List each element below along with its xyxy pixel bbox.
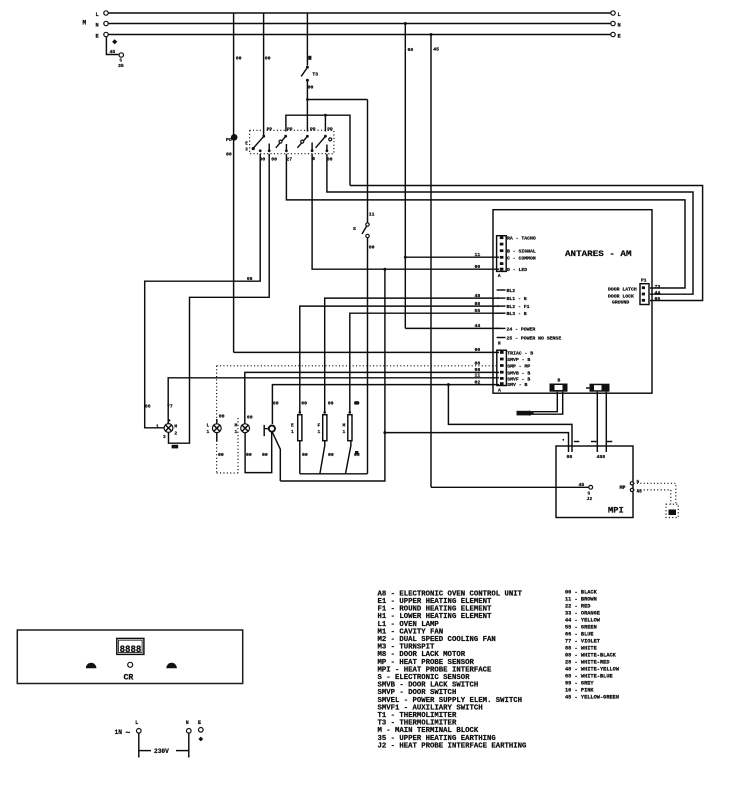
svg-text:PP: PP	[267, 127, 273, 133]
svg-text:68 - WHITE-BLUE: 68 - WHITE-BLUE	[565, 674, 613, 680]
wire M3 diagonal earth	[272, 432, 280, 482]
svg-text:BL1 - N: BL1 - N	[507, 296, 527, 302]
svg-text:DOOR LOCK: DOOR LOCK	[608, 294, 634, 300]
wire below T3 down to SMVEL sw3	[306, 82, 308, 132]
svg-text:E: E	[198, 720, 201, 726]
svg-text:25 - POWER NO SENSE: 25 - POWER NO SENSE	[507, 336, 562, 342]
svg-text:1: 1	[156, 423, 159, 429]
svg-text:1: 1	[291, 429, 294, 435]
svg-text:N: N	[186, 720, 189, 726]
wire C pin2 to plug	[532, 392, 563, 415]
wire L bus	[108, 12, 611, 14]
motor M2 cooling fan	[156, 419, 178, 448]
connector BL pin stubs and texts	[497, 288, 562, 347]
wire L drop	[138, 733, 140, 757]
wire door-lock rail to P1 pin3	[350, 186, 703, 301]
svg-text:BL3 - B: BL3 - B	[507, 311, 527, 317]
dotted lamp/sensor assembly bottom edge	[217, 472, 238, 474]
node N (right)	[611, 21, 615, 25]
svg-text:45 - YELLOW-GREEN: 45 - YELLOW-GREEN	[565, 695, 619, 701]
svg-text:28 - WHITE-RED: 28 - WHITE-RED	[565, 660, 610, 666]
svg-text:SMP - MP: SMP - MP	[507, 364, 530, 370]
svg-text:00: 00	[302, 452, 308, 458]
display window	[117, 638, 144, 655]
svg-text:PP: PP	[327, 127, 333, 133]
svg-text:D - LED: D - LED	[507, 267, 527, 273]
junction at 432.6	[383, 431, 386, 434]
wire H1 bottom with jog	[346, 441, 351, 474]
svg-text:88 - WHITE: 88 - WHITE	[565, 646, 597, 652]
heating element E1	[291, 401, 308, 458]
svg-text:00: 00	[226, 151, 232, 157]
svg-text:N: N	[498, 342, 501, 347]
connector D (board bottom right)	[586, 384, 610, 392]
svg-text:L: L	[135, 720, 138, 726]
svg-text:00: 00	[475, 347, 481, 353]
svg-text:SMVF - B: SMVF - B	[507, 376, 530, 382]
wire elements return rail	[300, 473, 368, 475]
svg-text:230V: 230V	[154, 748, 169, 755]
svg-text:66: 66	[247, 276, 253, 282]
svg-text:00: 00	[273, 401, 279, 407]
svg-text:00: 00	[271, 157, 277, 163]
svg-text:44: 44	[655, 290, 661, 296]
svg-text:C - COMMON: C - COMMON	[507, 255, 536, 261]
svg-text:73: 73	[655, 284, 661, 290]
wire T1 line (from door switch branch down to heating return)	[367, 100, 369, 223]
door lock contact SMVB on line	[231, 134, 238, 141]
svg-text:T3: T3	[312, 71, 318, 77]
wire F1 bottom with jog	[320, 441, 325, 474]
indicator lamp	[128, 662, 133, 667]
svg-text:E: E	[291, 423, 294, 429]
knob left	[86, 663, 97, 669]
junction LED row branch	[383, 268, 386, 271]
svg-text:45: 45	[433, 47, 439, 53]
svg-text:44: 44	[475, 323, 481, 329]
wire row to A8 connector (00)	[234, 351, 499, 353]
svg-text:488: 488	[597, 454, 606, 460]
svg-text:99 - GREY: 99 - GREY	[565, 681, 594, 687]
heating element F1	[318, 401, 334, 458]
wire vertical 00 from L (x=233.6)	[233, 13, 235, 352]
wire lamp stubs	[216, 419, 218, 424]
svg-text:08: 08	[567, 454, 573, 460]
svg-text:PP: PP	[287, 127, 293, 133]
wire row 44 to POWER pin	[405, 327, 499, 329]
svg-text:00: 00	[301, 401, 307, 407]
svg-text:66: 66	[408, 47, 414, 53]
wire N bus	[108, 23, 611, 25]
op board A8 ANTARES box	[493, 210, 652, 394]
svg-text:77: 77	[167, 404, 173, 410]
svg-text:00: 00	[327, 157, 333, 163]
plug symbol	[517, 410, 535, 416]
MP probe dotted body	[666, 504, 678, 517]
svg-text:BL2 - F1: BL2 - F1	[507, 304, 530, 310]
earth mark	[198, 737, 203, 742]
wire sw2 out to P1 pin1	[286, 154, 685, 288]
dotted MP sensor line to board	[217, 365, 496, 367]
svg-text:N: N	[618, 22, 621, 28]
svg-text:M: M	[83, 20, 87, 27]
svg-text:L: L	[618, 12, 621, 18]
MP dotted wire 1	[634, 483, 676, 504]
wire sw1 out a (66) to M2	[145, 154, 261, 428]
svg-text:00: 00	[218, 452, 224, 458]
svg-text:44 - YELLOW: 44 - YELLOW	[565, 618, 601, 624]
svg-text:1: 1	[343, 429, 346, 435]
svg-text:S: S	[588, 492, 591, 497]
svg-text:BL2: BL2	[507, 288, 516, 294]
svg-text:1: 1	[235, 429, 238, 435]
svg-text:45: 45	[579, 482, 585, 488]
svg-text:M: M	[235, 423, 238, 429]
svg-text:27: 27	[286, 157, 292, 163]
svg-text:00: 00	[265, 56, 271, 62]
wire row to S sensor (x=244.8)	[245, 372, 499, 423]
earth mark	[112, 39, 117, 44]
svg-text:SMV - B: SMV - B	[507, 382, 527, 388]
wire vertical 66 from N (x=405.3)	[404, 24, 406, 329]
svg-text:SMVP - B: SMVP - B	[507, 357, 530, 363]
wire sensor bottom stub	[245, 432, 272, 473]
wire D pin2 to MPI	[605, 392, 607, 452]
svg-text:11 - BROWN: 11 - BROWN	[565, 597, 597, 603]
wire T1 to elements return rail	[367, 238, 369, 474]
junction on N bus	[404, 22, 407, 25]
connector P1	[640, 278, 649, 305]
svg-text:48: 48	[475, 293, 481, 299]
power supply diagram	[115, 720, 204, 758]
svg-text:2: 2	[174, 430, 177, 436]
svg-text:M: M	[174, 423, 177, 429]
switch sw1	[252, 135, 271, 152]
wire row 88 to BL2 pin feeding element E1 (via x=299.8)	[300, 306, 499, 412]
svg-text:PO: PO	[226, 137, 232, 143]
wire row to M3 (x=272.4)	[272, 385, 499, 424]
wire vertical 45 from E (x=431)	[430, 35, 432, 488]
svg-text:8888: 8888	[120, 644, 142, 656]
svg-text:3: 3	[163, 435, 166, 440]
wire sw3 out to LED row	[312, 154, 499, 269]
svg-text:88: 88	[475, 301, 481, 307]
svg-text:22 - RED: 22 - RED	[565, 604, 590, 610]
wire down to M3 earth run	[280, 433, 385, 481]
svg-text:00: 00	[328, 401, 334, 407]
node earth terminal	[119, 53, 123, 57]
svg-text:00: 00	[247, 415, 253, 421]
junction MPI feed a	[447, 383, 450, 386]
earthing 35 small marks	[355, 401, 358, 404]
svg-text:00: 00	[328, 452, 334, 458]
svg-text:PP: PP	[310, 127, 316, 133]
svg-text:00: 00	[219, 414, 225, 420]
svg-text:77 - VIOLET: 77 - VIOLET	[565, 639, 601, 645]
wire branch down to MPI feed b	[384, 269, 386, 432]
svg-text:RA - TACHO: RA - TACHO	[507, 236, 536, 242]
SMVEL switch block dotted box	[250, 130, 334, 153]
svg-text:A: A	[498, 273, 501, 279]
svg-text:00: 00	[369, 244, 375, 250]
svg-text:J2: J2	[587, 496, 593, 502]
svg-text:88: 88	[475, 361, 481, 367]
wire vertical from L to door switch (x=307.4)	[306, 13, 308, 66]
wire sw4 top stub	[324, 115, 326, 131]
MPI earth terminal J2	[589, 485, 593, 489]
svg-text:B - SIGNAL: B - SIGNAL	[507, 249, 536, 255]
wire N drop	[188, 733, 190, 757]
svg-text:CR: CR	[124, 674, 134, 683]
svg-text:55: 55	[475, 308, 481, 314]
node L (right)	[611, 11, 615, 15]
svg-text:00: 00	[308, 85, 314, 91]
svg-text:TRIAC - B: TRIAC - B	[507, 350, 533, 356]
svg-text:A: A	[498, 387, 501, 393]
wire E earth drop top-left	[106, 37, 118, 55]
connector B (bottom)	[497, 350, 507, 393]
svg-text:MPI: MPI	[608, 507, 624, 516]
switch sw4	[316, 135, 332, 152]
svg-text:M: M	[343, 423, 346, 429]
svg-text:P1: P1	[641, 278, 647, 284]
svg-text:00: 00	[246, 452, 252, 458]
wire D pin1 to MPI	[596, 392, 598, 452]
svg-text:F: F	[318, 423, 321, 429]
wire MPI feed a	[448, 385, 572, 452]
motor M3 turnspit	[262, 425, 275, 458]
svg-text:1: 1	[207, 429, 210, 435]
svg-text:DOOR LATCH: DOOR LATCH	[608, 286, 637, 292]
svg-text:02: 02	[475, 379, 481, 385]
wire row 11 to COMMON pin	[405, 256, 499, 258]
junction for COMMON row	[404, 256, 407, 259]
svg-text:10 - PINK: 10 - PINK	[565, 688, 594, 694]
svg-text:33 - ORANGE: 33 - ORANGE	[565, 611, 600, 617]
svg-text:00 - BLACK: 00 - BLACK	[565, 590, 598, 596]
svg-text:5: 5	[637, 480, 640, 485]
heating element H1	[343, 401, 360, 458]
node E (right)	[611, 32, 615, 36]
dotted lamp/sensor assembly left edge	[216, 366, 218, 473]
legend colour codes	[565, 590, 620, 701]
connector C (board bottom left)	[550, 378, 568, 392]
knob right	[166, 663, 177, 669]
wire 45 to MPI earth	[431, 486, 589, 488]
dotted lamp/sensor assembly right edge	[237, 418, 239, 473]
wire vertical 00 from L to SMVEL sw1 (x=263.6)	[263, 13, 265, 137]
svg-text:GROUND: GROUND	[612, 299, 629, 305]
switch sw2	[276, 135, 288, 152]
wire sw1 out b to M2 bottom	[169, 154, 270, 443]
svg-text:66: 66	[655, 296, 661, 302]
wire row 55 to BL3 pin feeding element H1 (via x=349.8)	[350, 313, 499, 412]
wire C pin1 to plug	[532, 392, 558, 412]
svg-text:08: 08	[475, 367, 481, 373]
wire sw4 out to P1 pin2	[327, 154, 693, 294]
svg-text:SMVB - B: SMVB - B	[507, 370, 530, 376]
svg-text:N: N	[96, 22, 99, 28]
dimension 230V	[139, 750, 151, 752]
svg-text:48 - WHITE-YELLOW: 48 - WHITE-YELLOW	[565, 667, 620, 673]
wire row 77 to M2 top (x=168)	[168, 378, 499, 424]
wire E1 bottom	[299, 441, 301, 474]
svg-text:11: 11	[475, 252, 481, 258]
svg-text:55 - GREEN: 55 - GREEN	[565, 625, 597, 631]
svg-text:L: L	[96, 12, 99, 18]
junction at branch	[306, 98, 309, 101]
wire rail feeding sw2/sw4 tops	[286, 115, 350, 185]
sensor S	[235, 423, 252, 458]
thermolimiter T1 switch	[353, 223, 369, 238]
control panel CR	[17, 630, 242, 684]
svg-text:S: S	[353, 226, 356, 232]
svg-text:~: ~	[126, 729, 131, 738]
switch T3 (door/thermal)	[301, 66, 318, 82]
MP dotted wire 2	[634, 490, 671, 504]
svg-text:1N: 1N	[115, 729, 123, 736]
lamp L1	[207, 414, 225, 458]
svg-text:66: 66	[145, 404, 151, 410]
svg-text:1: 1	[318, 429, 321, 435]
switch sw3	[297, 135, 313, 152]
MPI pin ticks	[574, 441, 579, 443]
wire E bus	[108, 34, 611, 36]
svg-text:66 - BLUE: 66 - BLUE	[565, 632, 594, 638]
svg-text:35: 35	[118, 63, 124, 69]
svg-text:B: B	[558, 378, 561, 384]
legend component list	[378, 590, 528, 750]
wire row 48 to BL1 pin feeding element F1 (via x=324.7)	[325, 298, 499, 412]
svg-text:00: 00	[475, 264, 481, 270]
svg-text:11: 11	[475, 373, 481, 379]
connector A (top)	[497, 236, 507, 279]
svg-text:08 - WHITE-BLACK: 08 - WHITE-BLACK	[565, 653, 617, 659]
wire branch right to T1 line	[307, 99, 367, 101]
svg-text:ANTARES - AM: ANTARES - AM	[565, 250, 632, 259]
svg-text:00: 00	[262, 452, 268, 458]
svg-text:00: 00	[236, 56, 242, 62]
wire right to MPI pin b	[385, 433, 569, 452]
junction on E bus	[430, 33, 433, 36]
svg-text:L: L	[207, 423, 210, 429]
svg-text:11: 11	[369, 212, 375, 218]
MPI box	[556, 446, 633, 518]
svg-text:MP: MP	[620, 485, 626, 491]
svg-text:45: 45	[110, 49, 116, 55]
svg-text:J2 - HEAT PROBE INTERFACE EART: J2 - HEAT PROBE INTERFACE EARTHING	[378, 742, 528, 750]
svg-text:24 - POWER: 24 - POWER	[507, 326, 536, 332]
